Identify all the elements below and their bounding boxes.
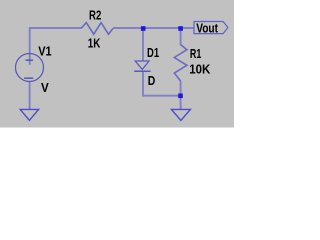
svg-text:D: D [148, 73, 156, 89]
svg-text:R1: R1 [190, 48, 201, 62]
svg-text:10K: 10K [189, 62, 210, 77]
svg-text:Vout: Vout [196, 21, 218, 36]
svg-text:D1: D1 [147, 47, 160, 61]
svg-text:R2: R2 [89, 9, 101, 23]
svg-text:1K: 1K [88, 36, 101, 51]
svg-text:V: V [41, 80, 49, 95]
svg-text:V1: V1 [38, 44, 52, 59]
